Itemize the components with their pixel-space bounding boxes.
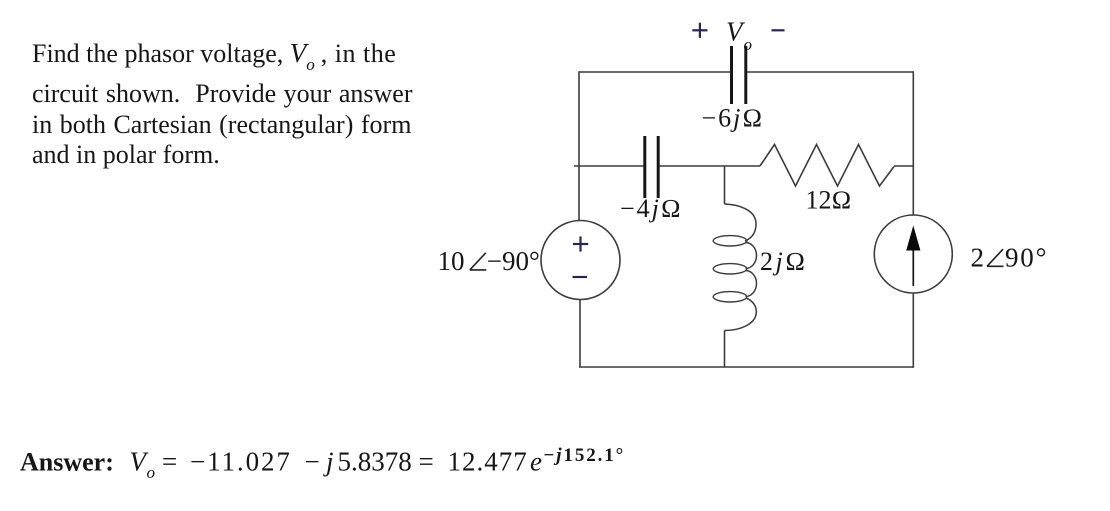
svg-text:circuit shown. Provide your a: circuit shown. Provide your answer [32,79,413,108]
svg-text:−11.027: −11.027 [190,446,292,476]
wire bottom rail [579,366,913,368]
label plus polarity of Vo [692,23,707,38]
inductor L1 2j ohm coil humps [725,204,757,331]
svg-text:12Ω: 12Ω [806,186,852,215]
label minus polarity of Vo [772,29,785,31]
current source arrow head [906,226,920,251]
current source arrow shaft [912,247,914,286]
wire top-left horizontal [579,71,731,73]
svg-text:=: = [162,446,177,476]
svg-text:5.8378: 5.8378 [338,446,412,476]
inductor loop 2 [713,264,747,274]
svg-text:−j152.1°: −j152.1° [544,445,626,466]
resistor R1 12 ohm zigzag [760,145,894,187]
svg-text:12.477: 12.477 [448,446,528,476]
wire right rail upper [912,71,914,215]
svg-text:Find the phasor voltage, Vo, i: Find the phasor voltage, Vo, in the [32,38,396,74]
wire junction to inductor top [724,166,726,204]
svg-text:j: j [323,446,334,476]
current source I1 circle [874,215,952,293]
svg-text:o: o [147,463,156,482]
wire left rail lower [579,300,581,368]
inductor loop 1 [713,236,747,246]
inductor loop 3 [713,292,747,302]
label angle symbol of left source [470,253,487,270]
voltage source minus sign [573,276,588,278]
svg-text:−6jΩ: −6jΩ [702,104,765,133]
capacitor C1 -6j ohm plates [732,46,746,104]
wire left rail upper [578,71,580,221]
svg-text:o: o [744,35,753,54]
voltage source plus sign [573,236,588,251]
svg-text:=: = [419,446,434,476]
wire inductor bottom to bottom rail [724,331,726,368]
svg-text:2: 2 [971,242,985,272]
svg-text:−: − [305,446,320,476]
svg-text:−90°: −90° [487,246,540,276]
wire right rail lower [912,293,914,368]
svg-text:in both Cartesian (rectangular: in both Cartesian (rectangular) form [32,110,411,139]
svg-text:2jΩ: 2jΩ [760,247,808,276]
svg-text:10: 10 [438,246,465,276]
voltage source V1 circle [541,221,620,300]
svg-text:−4jΩ: −4jΩ [620,194,683,223]
svg-text:e: e [530,446,542,476]
svg-text:90°: 90° [1005,242,1048,272]
capacitor C2 -4j ohm plates [645,136,658,198]
wire middle-left horizontal [574,165,644,167]
wire middle horizontal between C2 and R1 [659,165,761,167]
label angle symbol of right source [987,249,1004,266]
svg-text:and in polar form.: and in polar form. [32,140,220,169]
wire resistor-to-right-rail [894,165,913,167]
svg-text:Answer:: Answer: [20,447,114,476]
wire top-right horizontal [746,71,914,73]
